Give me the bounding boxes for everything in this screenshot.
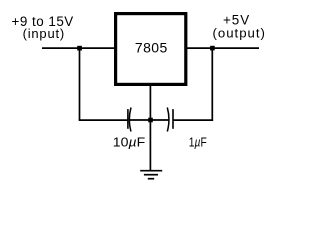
wire ground pin vertical [149,85,151,171]
capacitor C2 [167,108,173,132]
wire left horizontal to C1 [79,119,128,121]
value label C2 1uF [189,135,207,150]
ground [140,171,162,179]
node center junction [148,118,153,123]
svg-text:(output): (output) [212,26,265,41]
node output junction [210,46,215,51]
capacitor C1 [128,108,131,132]
wire left vertical [79,48,81,120]
svg-text:(input): (input) [23,26,65,41]
net label +5V (output) [212,13,265,41]
wire C1 to center node [130,119,151,121]
svg-text:1µF: 1µF [189,135,207,150]
wire input [42,47,115,49]
svg-text:10µF: 10µF [113,135,145,150]
wire output [186,47,259,49]
node input junction [77,46,82,51]
value label C1 10uF [113,135,145,150]
net label +9 to 15V (input) [12,14,74,41]
wire right vertical [211,48,213,121]
regulator U1 7805 [116,14,186,85]
svg-text:7805: 7805 [135,40,168,56]
wire center node to C2 [150,119,169,121]
wire C2 to right vertical [173,119,213,121]
